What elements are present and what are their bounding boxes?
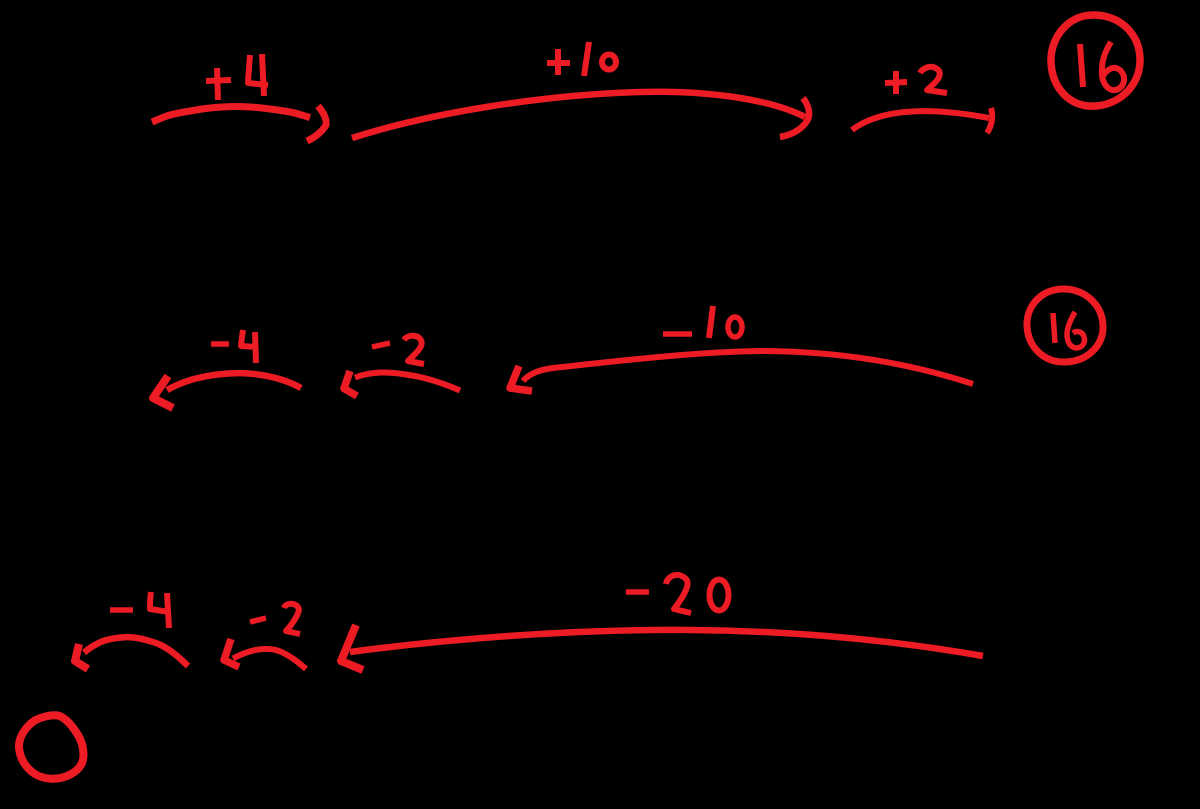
arrow +10 head <box>780 98 809 137</box>
label -2 middle <box>372 336 424 364</box>
label -20 <box>626 575 729 613</box>
arrow -2 bottom shaft <box>233 649 306 669</box>
arrow -4 bottom head <box>75 644 88 669</box>
label -2 bottom <box>250 604 300 634</box>
text 16 middle <box>1053 312 1085 348</box>
arrow -2 middle shaft <box>355 372 460 390</box>
text 16 top <box>1080 42 1124 90</box>
arrow -20 head <box>341 625 363 670</box>
arrow +2 head <box>987 108 992 133</box>
arrow -4 bottom shaft <box>84 637 188 666</box>
label -4 bottom <box>110 592 169 628</box>
arrow -2 bottom head <box>224 639 239 667</box>
label -4 middle <box>211 330 257 363</box>
arrow -10 shaft <box>523 351 973 384</box>
arrow +2 shaft <box>852 111 989 130</box>
arrow -2 middle head <box>344 371 357 396</box>
label +2 <box>885 67 947 94</box>
arrow -4 middle head <box>153 376 173 408</box>
circle 16 middle <box>1027 289 1103 362</box>
arrow -20 shaft <box>350 630 983 656</box>
arrow +10 shaft <box>352 92 805 138</box>
label +4 <box>206 54 268 100</box>
label +10 <box>547 42 616 76</box>
arrow +4 head <box>307 106 326 141</box>
circle 0 answer <box>19 715 84 779</box>
arrow +4 shaft <box>152 107 310 122</box>
circle 16 top <box>1051 15 1140 106</box>
label -10 <box>663 306 742 338</box>
arrow -10 head <box>510 366 532 391</box>
arrow -4 middle shaft <box>167 373 301 390</box>
